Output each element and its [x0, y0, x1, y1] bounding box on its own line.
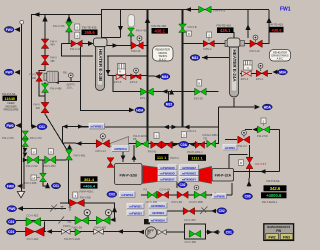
svg-text:M31: M31	[192, 56, 199, 60]
svg-text:mFW0B0Y: mFW0B0Y	[160, 177, 174, 181]
svg-text:FW-V-486: FW-V-486	[50, 86, 62, 90]
tag M31 y57.6	[190, 55, 200, 61]
tag FW0 y186	[6, 183, 16, 189]
instrument box row y134 left	[154, 133, 159, 139]
tag M34 y76.5	[160, 74, 170, 80]
wire heater B inlet y=43.5	[62, 43, 89, 45]
wire C01 arrow-up stub	[47, 183, 49, 186]
svg-text:OFF: OFF	[148, 228, 154, 232]
svg-text:mFW0B0Z: mFW0B0Z	[182, 172, 196, 176]
wire heater A top stub	[233, 32, 235, 38]
tag HDA y110	[135, 107, 145, 113]
svg-text:FW-V-478: FW-V-478	[214, 9, 226, 13]
arrow into FW0 tag y125	[16, 123, 22, 128]
damper diagonal on y209	[50, 205, 57, 212]
heater E-24B vessel	[94, 38, 108, 91]
valve FW-V-485 red vertical	[41, 55, 49, 64]
svg-text:mFW0B0A: mFW0B0A	[151, 204, 166, 208]
motor circle FW-V-463	[105, 210, 111, 216]
svg-text:EXV-4: EXV-4	[130, 80, 138, 84]
svg-text:+466.4: +466.4	[83, 184, 96, 189]
wire top header y=9.5	[101, 9, 269, 11]
valve CO-VTB red vertical	[107, 158, 114, 168]
svg-text:RB: RB	[63, 71, 67, 75]
valve FW-V-13 red	[96, 140, 109, 148]
svg-text:CO-V-3B1: CO-V-3B1	[185, 240, 197, 244]
wire extraction row y=91.5	[113, 76, 219, 92]
valve FW-V-479/473 double green vertical	[22, 131, 29, 146]
wire heater B inlet 2 y=56	[62, 44, 94, 57]
svg-text:361.4: 361.4	[84, 177, 95, 182]
wire x=108 drop to EXV line	[107, 56, 109, 76]
wire mid header extension	[183, 126, 219, 128]
suction strainer trapezoid	[110, 137, 129, 147]
svg-text:M34: M34	[279, 70, 286, 74]
instrument box FW-V-5D	[261, 118, 266, 124]
button stack left row3	[149, 217, 167, 222]
svg-text:mFW0B0D: mFW0B0D	[160, 172, 174, 176]
wire x=182.5 thick riser	[182, 10, 184, 128]
double down arrows x25	[23, 148, 28, 152]
tag C01 y231.6	[7, 229, 16, 235]
tag HDA y107	[262, 104, 272, 110]
wire x=147.5 into row	[147, 141, 149, 144]
svg-text:CO-PV-4BB: CO-PV-4BB	[189, 200, 203, 204]
E/P grid box heater A	[244, 61, 253, 71]
double arrows before C01 y232	[207, 230, 213, 235]
damper diagonal on y220.5	[59, 217, 65, 224]
instrument box pair near FW-TE-435	[75, 24, 80, 30]
valve FW-V-484 red vertical	[41, 39, 49, 48]
arrow into FW0 tag y72	[15, 70, 21, 75]
svg-text:mFW0B3: mFW0B3	[129, 211, 142, 215]
wire pump suction row y=144	[76, 143, 219, 145]
svg-text:CO-V-400: CO-V-400	[146, 200, 158, 204]
valve EXV-2 hollow	[242, 71, 252, 76]
valve FWV-3 red	[203, 40, 214, 46]
svg-text:FWV-B: FWV-B	[148, 149, 156, 153]
valve FW-V-5D green	[257, 126, 269, 133]
valve EXV-3B green	[141, 88, 154, 95]
valve FW-V-2 red	[238, 136, 250, 143]
valve FW-V-B green vertical	[179, 24, 187, 32]
valve FW-V-BB red	[70, 199, 85, 206]
arrow left on y194.8 row	[210, 193, 216, 197]
svg-text:FW-P-405-1: FW-P-405-1	[80, 190, 95, 194]
svg-text:FW-V-212: FW-V-212	[26, 164, 38, 168]
wire x=62.5 drop	[63, 127, 77, 144]
svg-text:FW-P-32A: FW-P-32A	[215, 174, 232, 178]
small component labels	[2, 9, 268, 244]
svg-text:FW-V-BB: FW-V-BB	[80, 196, 91, 200]
svg-text:mFW0B5A: mFW0B5A	[151, 218, 166, 222]
tag FW0 y125.5	[5, 123, 15, 129]
wire C02 stub	[176, 182, 178, 188]
arrow left on bottom row y231.5	[118, 229, 124, 233]
svg-text:mFW0B0Z: mFW0B0Z	[182, 166, 196, 170]
wire CO-V-366 row y=211	[167, 210, 215, 212]
svg-text:M: M	[240, 161, 242, 165]
arrow up x69	[66, 16, 71, 22]
arrow down x108	[106, 70, 111, 75]
svg-text:FW0: FW0	[7, 184, 14, 188]
button mFW0B1 mid header	[89, 123, 105, 129]
svg-text:438.8: 438.8	[271, 27, 282, 32]
arrow into FW0 tag y209	[18, 206, 24, 211]
svg-text:B: B	[198, 82, 200, 86]
valve CO-V-366 red	[183, 208, 194, 215]
svg-text:FW-V-456: FW-V-456	[136, 28, 148, 32]
svg-text:C01: C01	[8, 220, 14, 224]
tag FW2	[4, 27, 14, 33]
arrow up x114.5	[112, 207, 117, 213]
wire eductor outlet	[59, 78, 81, 82]
tag C01 y221.5	[7, 219, 16, 225]
gauge circle ADPTV	[69, 73, 74, 78]
svg-text:C01: C01	[8, 230, 14, 234]
arrow up into C01 y186	[45, 183, 50, 189]
svg-text:C01: C01	[39, 125, 45, 129]
wire pump loop top y=107	[219, 106, 255, 108]
svg-text:FW2: FW2	[269, 235, 276, 239]
svg-text:FW-V-B: FW-V-B	[188, 25, 197, 29]
valve row y194.7 red 3 PWV-42	[177, 191, 188, 198]
valve FW-V-480 red vertical	[36, 73, 43, 82]
svg-text:HEATER E-24B: HEATER E-24B	[98, 49, 103, 82]
instrument box letters	[32, 26, 264, 198]
wire M34 feed y=76.2	[148, 75, 156, 77]
svg-text:FW0: FW0	[8, 207, 15, 211]
svg-text:mFW0CA: mFW0CA	[114, 147, 128, 151]
wire mid header y=127	[78, 126, 183, 128]
arrows on y127 mid header	[164, 125, 170, 129]
button grid col2 row1	[180, 165, 199, 170]
heater E-24A vessel	[225, 38, 245, 97]
wire jog to FW-V-480	[39, 71, 45, 96]
svg-text:FW-P-32B: FW-P-32B	[120, 173, 138, 177]
svg-text:C01: C01	[226, 230, 232, 234]
arrow left y211 row	[211, 209, 216, 213]
pump 32B coupling trapezoid	[158, 168, 167, 180]
svg-text:FW-V-473: FW-V-473	[30, 136, 42, 140]
svg-text:485: 485	[50, 59, 55, 63]
instrument circle above EXV-4	[134, 68, 139, 73]
value box FW-TE-428	[152, 24, 169, 34]
svg-text:M32: M32	[166, 103, 173, 107]
button mFW0 lower right	[213, 194, 227, 199]
standpipe cylinder above FW-V-456	[128, 15, 135, 28]
instrument box CO-V-5T	[239, 160, 244, 166]
tag C03 under grid	[178, 182, 187, 188]
wire M31 feed y=57.6	[202, 57, 229, 59]
svg-text:EXV-39: EXV-39	[194, 97, 203, 101]
arrow left on y91.5	[162, 89, 168, 93]
button mFW004	[120, 192, 136, 198]
wire pump 32B discharge stubs	[123, 145, 134, 162]
arrow into eductor y81.6	[54, 79, 59, 84]
arrow into M34 tag right y72	[273, 70, 278, 75]
arrow up x134 pump stub	[132, 155, 137, 160]
button grid col1 row3	[158, 176, 177, 181]
button grid col2 row2	[180, 171, 199, 176]
tag M34 right y72	[278, 69, 288, 75]
svg-text:FW-V-5D: FW-V-5D	[257, 134, 268, 138]
arrow left on y231.5	[47, 229, 53, 233]
valve row y194.7 red 2	[158, 191, 169, 198]
svg-text:482: 482	[36, 106, 41, 110]
instrument box row y134 right	[181, 132, 186, 138]
svg-text:FW-TE-416: FW-TE-416	[217, 23, 232, 27]
instrument box FW-V-212	[31, 149, 36, 155]
svg-text:CO-V-5T: CO-V-5T	[255, 162, 266, 166]
svg-text:PRESSURE: PRESSURE	[4, 108, 19, 112]
wire bottom row y=231.5	[16, 231, 144, 233]
arrow right before C0A oval	[172, 142, 178, 147]
value box FW-PULSE right	[261, 180, 287, 204]
svg-text:EXV-2: EXV-2	[241, 77, 249, 81]
arrow right into left valve row y160	[23, 158, 28, 162]
instrument box FWV-3	[207, 32, 212, 38]
wire x=218.5 riser	[218, 107, 220, 144]
svg-text:FB-: FB-	[68, 220, 72, 224]
pump FW-P-32A body	[212, 169, 234, 182]
drain funnel bottom left	[17, 192, 24, 198]
motor circle FW-V-5B	[84, 210, 90, 216]
wire x=69 green valve drop	[68, 15, 70, 44]
arrow into HDA tag y110	[129, 108, 135, 113]
wire left bottom row y=221.5	[16, 220, 110, 222]
svg-text:FWV-3: FWV-3	[204, 47, 212, 51]
svg-text:101 L: 101 L	[67, 85, 74, 89]
button grid col1 row1	[158, 165, 177, 170]
arrow up x269	[266, 17, 271, 23]
valve row y144.8 red 3	[195, 141, 204, 148]
valve FW-V-20B green vertical	[40, 173, 47, 181]
arrow left end y220.5 row	[110, 218, 116, 223]
wire left small row y=126.5	[63, 126, 90, 128]
wire left valves row y=160	[24, 159, 66, 161]
arrow up on y91.5 junction	[169, 90, 174, 95]
wire x=80.5 drop to HDA line	[81, 47, 131, 111]
svg-text:FW-PULSE: FW-PULSE	[267, 180, 280, 183]
T vent marks near y207	[61, 207, 72, 212]
valve CO-PV-4BB green	[194, 191, 206, 198]
pump FW-P-32B body	[115, 164, 143, 185]
instrument box EXV-39	[197, 80, 202, 87]
wire FW-V-2 line	[225, 139, 237, 141]
value box FW-PULSE 11640	[2, 92, 17, 101]
arrow up below y143 line	[67, 144, 72, 149]
button stack left row1	[149, 203, 167, 208]
svg-text:FW2: FW2	[6, 28, 13, 32]
value box FW-TE-416	[217, 23, 234, 33]
valve FW-V-20 red	[250, 40, 262, 47]
pump 32A motor red	[199, 167, 212, 184]
svg-text:FW-V-13: FW-V-13	[96, 149, 107, 153]
svg-text:HEATER E-24A: HEATER E-24A	[232, 50, 237, 83]
svg-text:484: 484	[50, 43, 55, 47]
valve FW-P-420S green pair	[136, 140, 148, 147]
wire pump 32A recirc	[245, 130, 280, 172]
wire bypass to C01	[206, 231, 221, 233]
wire x=120.5 drop to heater B top	[120, 10, 122, 38]
valve CO-V-4E3 green	[26, 218, 41, 226]
svg-text:1111 1: 1111 1	[191, 156, 203, 161]
valve FW-V-42B green single	[75, 229, 81, 236]
tag FW0 y208.5	[7, 206, 17, 212]
wire second header y=14.5	[31, 14, 101, 16]
tag C01 y232	[224, 229, 233, 235]
svg-text:HDA: HDA	[264, 105, 272, 109]
tag C01 y185.8	[51, 183, 60, 189]
value box FW-PULSE-1	[187, 151, 206, 161]
svg-text:mFW0B1: mFW0B1	[129, 204, 142, 208]
navigation keys panel	[264, 224, 294, 241]
valve FW-V-2B3 green	[45, 156, 56, 164]
wire M32 stub	[168, 92, 170, 102]
svg-text:C00: C00	[245, 195, 251, 199]
svg-text:480: 480	[32, 76, 37, 80]
valve FW-EV-40B4 green	[207, 140, 216, 147]
valve FWV-26 red	[131, 42, 143, 49]
valve CO-V-4E2 red	[26, 227, 45, 236]
check valve y231.5 far left	[62, 229, 66, 234]
tag M32 y104	[164, 101, 174, 107]
svg-text:mFW0B1: mFW0B1	[91, 125, 104, 129]
svg-text:FW-TE-428: FW-TE-428	[152, 24, 167, 28]
arrow up x45	[42, 16, 47, 22]
svg-text:CO-V-4E3: CO-V-4E3	[27, 213, 39, 217]
arrow into M34 tag y76.5	[155, 74, 161, 79]
svg-text:C0A: C0A	[180, 143, 187, 147]
check valve y231.5 left	[94, 229, 99, 234]
wire FW-PC row y=203	[60, 202, 115, 204]
instrument circle above FW-V-13	[100, 134, 105, 139]
arrow up x249 C00 riser	[247, 181, 252, 187]
svg-text:C02: C02	[219, 209, 225, 213]
arrow down x123 pump stub	[121, 156, 126, 161]
arrow left on y14.5 header	[34, 12, 40, 16]
wire heater A drain	[233, 98, 235, 107]
svg-text:mFW0B0D: mFW0B0D	[160, 166, 174, 170]
svg-text:mFW0B1: mFW0B1	[152, 211, 165, 215]
arrow down x120.5	[118, 26, 123, 32]
svg-text:M34: M34	[162, 75, 169, 79]
small black tag above OFF pump	[144, 219, 150, 224]
valve FW-V-435 green vertical	[66, 22, 73, 32]
instrument circle above FW-V-20	[253, 35, 258, 40]
arrow into HDA tag y107 right	[255, 105, 261, 110]
svg-text:FW-V-435: FW-V-435	[53, 24, 65, 28]
svg-text:C01: C01	[53, 184, 59, 188]
instrument circle above FWV-26	[137, 36, 142, 41]
FB circle above CO-PV-4BB	[194, 185, 199, 190]
svg-text:FW-V-2B3: FW-V-2B3	[44, 164, 56, 168]
wire corner x=101 down	[102, 10, 121, 38]
svg-text:11640: 11640	[4, 96, 16, 101]
valve FW-V-5B green	[75, 216, 89, 224]
value box FW-TE-419	[269, 23, 284, 33]
wire heater A outlet nozzle y=43.5	[240, 43, 250, 45]
arrow left pump32A recirc y171.5	[260, 169, 266, 173]
wire CO-V-5T line	[249, 145, 251, 178]
svg-text:C03: C03	[109, 193, 115, 197]
wire bottom row right y=232	[163, 231, 184, 233]
instrument circle above FW-V-2	[242, 130, 247, 135]
button stack left row2	[149, 210, 167, 215]
instrument box FW-V-BB	[73, 192, 78, 198]
arrow into FW0 tag y186	[17, 184, 23, 189]
svg-text:mFW004: mFW004	[121, 193, 133, 197]
svg-text:mFW0B: mFW0B	[214, 195, 224, 199]
svg-text:FW-V-41: FW-V-41	[70, 47, 81, 51]
svg-text:FW: FW	[276, 229, 281, 233]
svg-text:FW-TE-435: FW-TE-435	[82, 25, 97, 29]
svg-text:mFW0B0Y: mFW0B0Y	[182, 177, 196, 181]
button pair mid row1	[127, 203, 144, 208]
valve CO-V-3B1 green in bypass	[189, 230, 201, 237]
button grid col2 row3	[180, 176, 199, 181]
wire pump 32A box outline	[229, 155, 261, 172]
wire x=44.5 connect rows	[44, 222, 46, 232]
arrow left end of pump row y143.5	[76, 141, 82, 145]
tag C0A in valve row	[179, 141, 189, 147]
valve CO-V-5T red vertical	[246, 157, 253, 168]
svg-text:FW3: FW3	[283, 235, 290, 239]
wire EXV line y=75.7	[108, 75, 147, 77]
svg-text:FW0: FW0	[6, 71, 13, 75]
valve FW-V-41 red	[71, 40, 82, 47]
arrow into M31 tag y57.6	[202, 55, 208, 60]
tag FW0 y72	[4, 69, 14, 75]
svg-text:CO-V-4B: CO-V-4B	[160, 188, 171, 192]
value box FW-P-405 pair	[80, 176, 98, 193]
valve FW-V-463 green	[96, 216, 110, 224]
tag C03 near pump	[107, 191, 117, 197]
svg-text:FW-EV-40B4: FW-EV-40B4	[203, 133, 219, 137]
eductor small vessel left cluster	[44, 73, 47, 80]
button grid col1 row2	[158, 171, 177, 176]
wire x=21.7 long left line	[21, 24, 23, 191]
button mFW00A right	[223, 145, 237, 150]
vent circle top of x21.7 line	[20, 20, 24, 24]
arrow up x248	[245, 24, 250, 30]
wire heater B outlet 2 y=56	[107, 55, 148, 57]
value box FW-PI-2001	[155, 154, 180, 160]
arrows on y126.5 left row	[63, 124, 68, 128]
svg-text:FW-T-4E3A-1: FW-T-4E3A-1	[262, 201, 278, 204]
valve FW-V-478 green on top header	[199, 6, 211, 13]
valve row y194.7 green 1	[148, 191, 157, 198]
arrow left before OFF pump	[139, 230, 144, 235]
instrument circle above EXV-1	[258, 63, 263, 68]
wire x=115 drop to y=220	[114, 203, 116, 220]
svg-text:CO-V-366: CO-V-366	[184, 218, 196, 222]
svg-text:FW-V-463: FW-V-463	[95, 226, 107, 230]
svg-text:FW-PI-2: FW-PI-2	[170, 157, 180, 160]
svg-text:+4000.6: +4000.6	[266, 193, 282, 198]
svg-text:EXV-1: EXV-1	[256, 77, 264, 81]
svg-text:368.6: 368.6	[84, 30, 95, 35]
valve EXV-4 red	[131, 74, 141, 80]
svg-text:FW1: FW1	[280, 7, 291, 13]
wire FW0 y=209 stub	[23, 208, 66, 210]
wire x=248 heater A vent riser	[247, 10, 249, 39]
wire heater B outlet y=45.5	[107, 45, 147, 47]
wire x=24 drop from double valve	[23, 146, 25, 189]
booster pump circle OFF	[145, 227, 156, 238]
svg-text:FW-TE-419: FW-TE-419	[269, 23, 284, 27]
